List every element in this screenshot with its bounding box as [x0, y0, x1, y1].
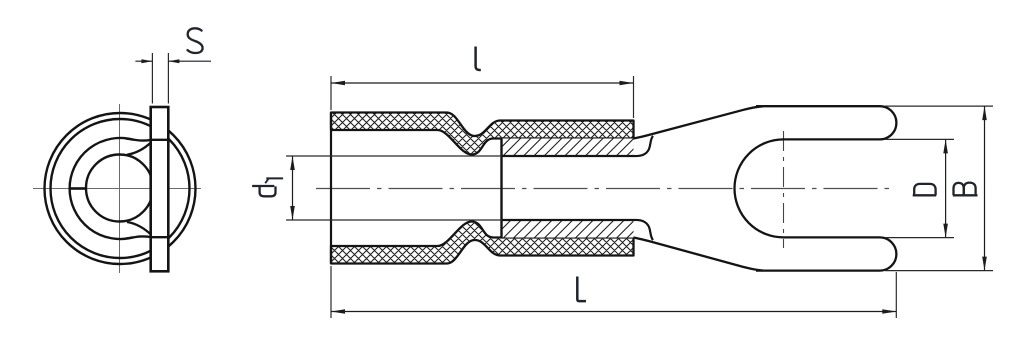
bottom metal band (single hatch)	[502, 220, 634, 238]
bottom insulation band (crosshatched)	[331, 222, 634, 264]
neck outer top	[634, 106, 764, 138]
d1 hole line bottom	[286, 219, 502, 221]
flare top inner	[127, 143, 151, 155]
barrel left edge	[330, 113, 332, 264]
S arrow right	[168, 59, 179, 63]
S dim line right segment	[168, 60, 211, 62]
S dim line left segment	[135, 60, 152, 62]
D arrow top	[943, 139, 948, 153]
insulation outer circle	[45, 113, 196, 264]
flare top outer	[126, 139, 151, 141]
S label	[188, 28, 203, 53]
B arrow top	[982, 106, 987, 120]
subscript 1 (horizontal after rotation)	[266, 177, 283, 179]
S extension line left	[151, 53, 153, 104]
fork outline	[735, 106, 897, 270]
seam segment	[70, 187, 86, 190]
D dim line	[945, 139, 947, 237]
D extension bottom	[885, 237, 954, 239]
D bowl (opens down onto stem)	[914, 184, 935, 195]
d1 dim line	[292, 156, 294, 220]
L extension right	[895, 272, 897, 318]
barrel mouth hook bottom	[634, 220, 654, 240]
L arrow right	[882, 309, 896, 314]
d1 hole line top	[286, 155, 502, 157]
L label	[577, 277, 586, 302]
D extension top	[885, 138, 954, 140]
d bowl (open up)	[260, 186, 276, 196]
centerline horizontal (left view)	[33, 188, 201, 190]
d1 label (rotated, drawn directly)	[252, 178, 283, 196]
tab (tongue edge-on)	[151, 107, 169, 271]
D stem (bottom after rotation)	[913, 194, 937, 196]
l dim line	[331, 82, 634, 84]
fork hole vertical centerline	[783, 131, 785, 248]
flare bottom outer	[126, 236, 151, 238]
B label (rotated, drawn directly)	[953, 183, 978, 196]
D arrow bottom	[943, 224, 948, 238]
metal barrel circle (arc, right part replaced by flares)	[70, 138, 133, 239]
S arrow left	[141, 59, 152, 63]
neck outer bottom	[634, 238, 764, 271]
l label (script l with tail)	[476, 47, 481, 70]
metal barrel end vertical line	[500, 139, 502, 238]
B upper bowl (left after rotation)	[954, 183, 964, 195]
tab division top	[151, 139, 169, 141]
l extension left	[330, 76, 332, 110]
top insulation band (crosshatched)	[331, 113, 634, 155]
l arrow right	[620, 81, 634, 86]
B extension top	[885, 105, 993, 107]
main centerline	[316, 188, 896, 190]
S extension line right	[167, 53, 169, 104]
B lower bowl (right after rotation)	[964, 183, 976, 196]
L extension left	[330, 266, 332, 318]
bottom metal band top edge	[502, 219, 634, 221]
d stem (horizontal after rotation)	[252, 185, 274, 187]
insulation inner circle	[51, 119, 190, 258]
tab division bottom	[151, 236, 169, 238]
d1 arrow top	[290, 156, 295, 170]
L arrow left	[331, 309, 345, 314]
wire hole circle	[86, 155, 153, 222]
D label (rotated, drawn directly)	[913, 184, 937, 195]
barrel mouth hook top	[634, 136, 654, 156]
centerline vertical (left view)	[119, 104, 121, 273]
B extension bottom	[885, 270, 993, 272]
d1 arrow bottom	[290, 206, 295, 220]
B dim line	[984, 106, 986, 271]
L dim line	[331, 311, 896, 313]
B stem (bottom after rotation)	[953, 194, 978, 196]
top metal band (single hatch)	[502, 139, 634, 157]
flare bottom inner	[127, 222, 151, 235]
l extension right	[633, 76, 635, 118]
B arrow bottom	[982, 257, 987, 271]
l arrow left	[331, 81, 345, 86]
top metal band bottom edge	[502, 155, 634, 157]
